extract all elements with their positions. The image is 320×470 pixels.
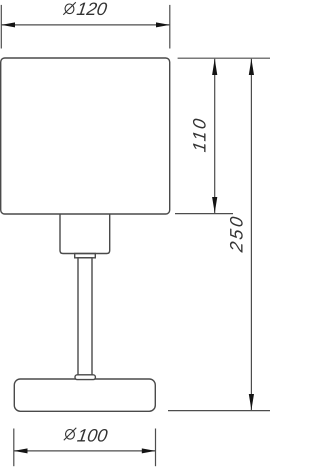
dimension line 250: [250, 59, 252, 410]
svg-text:110: 110: [190, 115, 210, 153]
extension line shade bottom (110): [175, 213, 233, 215]
arrow d120 left: [1, 22, 15, 27]
stem: [78, 258, 92, 375]
diameter symbol (d120): [63, 2, 76, 15]
lamp shade: [1, 58, 170, 214]
svg-text:250: 250: [227, 213, 247, 254]
arrow d100 left: [14, 448, 28, 453]
arrow 110 up: [212, 59, 217, 75]
extension line right (base dia): [155, 429, 157, 467]
arrow d100 right: [142, 448, 156, 453]
svg-text:120: 120: [75, 0, 108, 19]
collar: [75, 254, 96, 258]
dimension line d120: [1, 24, 170, 26]
arrow d120 right: [156, 22, 170, 27]
arrow 110 down: [212, 197, 217, 213]
extension line left (shade dia): [0, 5, 2, 49]
dimension line 110: [214, 59, 216, 213]
arrow 250 up: [249, 59, 254, 75]
extension line right (shade dia): [169, 5, 171, 49]
extension line base bottom (250): [168, 410, 270, 412]
svg-text:100: 100: [76, 426, 109, 446]
arrow 250 down: [249, 394, 254, 410]
diameter symbol (d100): [64, 428, 77, 441]
dimension line d100: [14, 450, 156, 452]
extension line top right (shared 110/250): [178, 57, 270, 59]
extension line left (base dia): [13, 429, 15, 467]
stem foot: [75, 375, 95, 380]
base: [14, 379, 155, 411]
socket neck: [60, 214, 110, 254]
